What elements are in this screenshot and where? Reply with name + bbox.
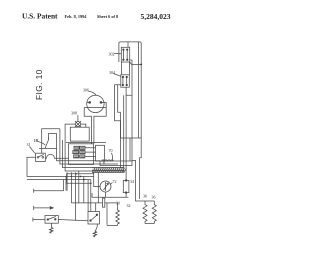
bank resistor 2	[152, 201, 156, 224]
vertical drop x130.3	[129, 138, 131, 161]
label 70	[109, 148, 113, 153]
hatched band	[92, 168, 127, 173]
wire bundle vertical c	[123, 95, 125, 172]
svg-text:70: 70	[109, 148, 113, 153]
vertical between relay boxes	[130, 60, 132, 161]
svg-text:308: 308	[71, 111, 77, 116]
wire K2 bottom routing	[126, 87, 132, 95]
lead to S1	[30, 147, 35, 154]
cluster small boxes row1	[73, 146, 85, 158]
label 302	[109, 52, 115, 57]
wire K1 top hook to right verticals	[119, 42, 141, 156]
fuse box in series	[103, 198, 105, 207]
wire bundle vertical d	[125, 95, 127, 180]
long horizontal 2	[27, 180, 91, 191]
ground below S2a	[50, 223, 52, 227]
wire from lamp right	[81, 124, 86, 127]
hump element right of S1	[45, 154, 68, 158]
junction dots mesh	[71, 173, 92, 184]
wire K1 bottom right to v-line	[130, 62, 142, 64]
lead 18	[38, 141, 46, 145]
cluster outer box	[69, 144, 94, 165]
svg-text:304: 304	[109, 70, 115, 75]
motor M circle	[87, 91, 104, 112]
FIG. 10 label (rotated)	[34, 69, 44, 100]
svg-text:36: 36	[143, 194, 147, 199]
arrow line y207.9	[34, 206, 54, 210]
label Rl	[102, 160, 106, 165]
labels 36	[116, 194, 156, 209]
lamp	[75, 115, 81, 127]
bank resistor 1	[143, 201, 147, 224]
meter loop	[94, 172, 100, 186]
third zigzag resistor	[116, 203, 120, 226]
left nested loops	[42, 129, 60, 153]
side box right of cluster	[96, 145, 105, 161]
switch S2b	[88, 212, 100, 225]
svg-text:34: 34	[130, 179, 134, 184]
svg-text:5,284,023: 5,284,023	[141, 12, 171, 21]
svg-text:32: 32	[127, 203, 131, 208]
wire right vertical 2	[138, 42, 140, 138]
label 310	[27, 142, 31, 147]
svg-text:FIG. 10: FIG. 10	[34, 69, 44, 100]
svg-text:72: 72	[113, 179, 117, 184]
svg-text:R: R	[102, 160, 106, 165]
resistor 34 box	[123, 180, 129, 194]
S1 left lead down to long wire	[27, 157, 94, 190]
svg-text:31: 31	[27, 142, 31, 147]
label 18	[34, 138, 38, 143]
switch S1 box	[36, 153, 46, 161]
label 306	[83, 88, 89, 93]
label 2x	[113, 179, 117, 184]
switch line y220.1 with S2a	[33, 218, 45, 222]
cluster box tiny marks	[74, 147, 85, 157]
mesh horizontals	[67, 174, 94, 183]
svg-text:U.S. Patent: U.S. Patent	[22, 12, 58, 21]
svg-text:18: 18	[34, 138, 38, 143]
upper box below lamp	[70, 127, 89, 141]
svg-text:Feb. 8, 1994: Feb. 8, 1994	[65, 14, 88, 19]
svg-text:30: 30	[116, 201, 120, 206]
motor mount box	[84, 108, 106, 144]
line with tick y190.7	[34, 189, 64, 193]
svg-text:36: 36	[152, 195, 156, 200]
wire K2 bottom-left down-bundle	[115, 85, 142, 138]
box-to-box connectors	[122, 62, 130, 75]
header text	[22, 12, 171, 21]
relay K2 box	[121, 75, 130, 87]
lead 70	[111, 153, 114, 161]
label 308	[71, 111, 77, 116]
wire bundle vertical b	[118, 85, 121, 168]
right resistor bank wires	[132, 156, 154, 202]
cluster row wires	[85, 148, 96, 157]
motor right terminal wire	[87, 102, 106, 116]
lead from 302 to K1	[114, 53, 121, 55]
ground below S2b	[95, 224, 97, 231]
svg-text:Sheet 6 of 8: Sheet 6 of 8	[97, 14, 118, 19]
wire under motor	[66, 142, 106, 144]
lead from 304 to K2	[114, 74, 121, 77]
svg-text:302: 302	[109, 52, 115, 57]
mesh verticals	[84, 176, 96, 211]
label 34	[130, 179, 134, 184]
svg-text:306: 306	[83, 88, 89, 93]
vertical drops from band to bottom	[67, 171, 98, 221]
small contact on loop	[39, 137, 57, 149]
junction dot	[140, 64, 142, 66]
bar element	[100, 160, 132, 166]
meter circle	[100, 181, 111, 192]
relay K1 box	[121, 47, 129, 62]
wire from lamp left down	[65, 124, 124, 171]
label 304	[109, 70, 115, 75]
